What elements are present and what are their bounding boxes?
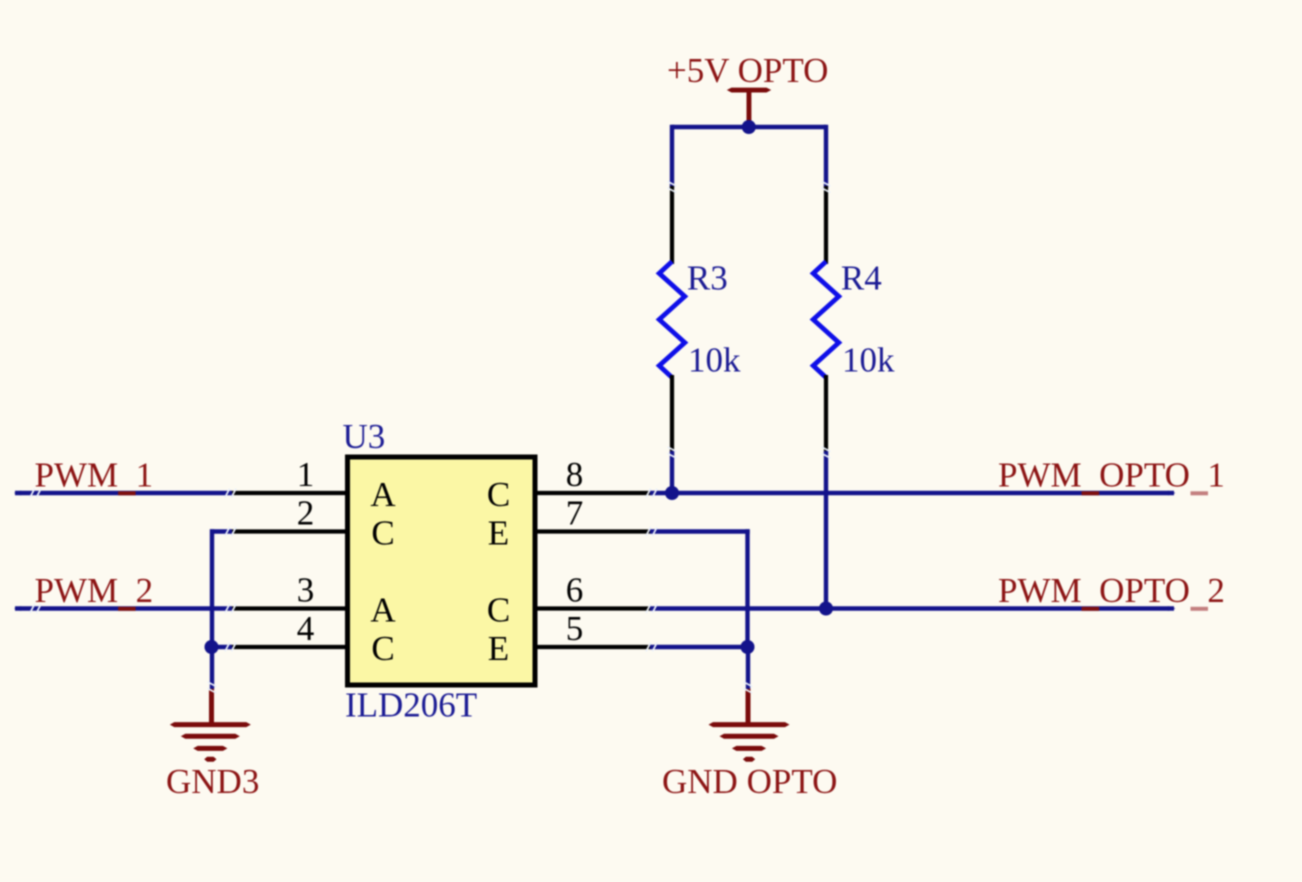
resistor R4 body [813, 262, 839, 378]
pin 6 wire [537, 606, 651, 610]
tick marker R3 top joint [668, 182, 676, 192]
pin 7 wire [537, 529, 651, 533]
wire pin2/pin4 to GND3 [210, 529, 232, 689]
junction R4 / pin6 [819, 602, 833, 616]
svg-text:A: A [370, 475, 396, 514]
PWM_2 label underscore [118, 607, 136, 611]
svg-text:A: A [370, 591, 396, 630]
PWM_OPTO_1 underscore on wire [1082, 491, 1100, 495]
svg-text:+5V OPTO: +5V OPTO [667, 51, 828, 90]
svg-text:R3: R3 [687, 259, 728, 298]
svg-text:R4: R4 [841, 259, 882, 298]
pin 5 wire [537, 645, 651, 649]
pin 8 wire [537, 491, 651, 495]
tick marker R3 bottom joint [668, 447, 676, 457]
wire net PWM_2 [15, 606, 232, 610]
svg-text:3: 3 [297, 571, 315, 610]
svg-text:PWM_OPTO_1: PWM_OPTO_1 [998, 456, 1225, 495]
tick marker pin8 wire joint [646, 489, 656, 497]
junction R3 / pin8 [665, 486, 679, 500]
resistor R3 pin top [670, 186, 674, 264]
wire end taper PWM_OPTO_1 [1168, 491, 1176, 496]
svg-text:PWM_2: PWM_2 [35, 571, 154, 610]
svg-text:5: 5 [566, 609, 584, 648]
svg-text:E: E [488, 514, 509, 553]
svg-text:8: 8 [566, 455, 584, 494]
tick marker pin7 wire joint [646, 528, 656, 536]
PWM_OPTO_2 underscore on wire [1082, 607, 1100, 611]
svg-text:C: C [371, 514, 394, 553]
pin 1 wire [231, 491, 346, 495]
tick marker pin5 wire joint [646, 643, 656, 651]
svg-text:E: E [488, 629, 509, 668]
junction pin4 / GND3 [205, 640, 219, 654]
svg-text:C: C [371, 629, 394, 668]
wire net PWM_OPTO_1 [650, 491, 1174, 495]
ground GND_OPTO symbol [709, 689, 790, 762]
junction pin5 / GND_OPTO [741, 640, 755, 654]
tick marker R4 bottom joint [822, 447, 830, 457]
wire end taper PWM_2 [14, 606, 21, 611]
pin 4 wire [230, 645, 346, 649]
svg-text:1: 1 [297, 455, 315, 494]
tick marker pin6 wire joint [646, 605, 656, 613]
ground GND3 symbol [170, 689, 251, 762]
pin 2 wire [230, 529, 346, 533]
svg-text:C: C [487, 591, 510, 630]
junction +5V node [742, 120, 756, 134]
power +5V_OPTO stem [747, 90, 752, 121]
tick marker pin2 wire joint [225, 528, 235, 536]
svg-text:U3: U3 [343, 417, 386, 456]
wire net PWM_1 [15, 491, 232, 495]
tick marker pin4 wire joint [225, 643, 235, 651]
optocoupler U3 body [348, 457, 536, 685]
svg-text:7: 7 [566, 494, 584, 533]
tick marker PWM_1 end [30, 489, 40, 497]
svg-text:PWM_OPTO_2: PWM_OPTO_2 [998, 571, 1225, 610]
resistor R4 pin bottom [824, 375, 828, 455]
resistor R3 pin bottom [670, 375, 674, 455]
wire net PWM_OPTO_2 [650, 606, 1174, 610]
tick marker pin1 wire joint [225, 489, 235, 497]
wire end taper PWM_OPTO_2 [1168, 606, 1176, 611]
svg-text:GND3: GND3 [166, 762, 259, 801]
PWM_OPTO_2 underscore pale [1191, 607, 1209, 611]
svg-text:6: 6 [566, 571, 584, 610]
svg-text:10k: 10k [842, 341, 895, 380]
resistor R4 pin top [824, 186, 828, 264]
power +5V_OPTO bar symbol [727, 88, 771, 93]
PWM_1 label underscore [118, 491, 136, 495]
tick marker GND3 joint [208, 682, 216, 692]
wire pin7/pin5 to GND_OPTO [650, 529, 750, 689]
pin 3 wire [231, 606, 346, 610]
svg-text:PWM_1: PWM_1 [35, 456, 154, 495]
tick marker PWM_2 end [30, 605, 40, 613]
PWM_OPTO_1 underscore pale [1191, 491, 1209, 495]
svg-text:4: 4 [297, 609, 315, 648]
tick marker pin3 wire joint [225, 605, 235, 613]
svg-text:10k: 10k [688, 341, 741, 380]
svg-text:2: 2 [297, 494, 315, 533]
wire R3 bottom to node PWM_OPTO_1 [670, 451, 674, 495]
svg-text:GND OPTO: GND OPTO [662, 762, 837, 801]
tick marker R4 top joint [822, 182, 830, 192]
svg-text:C: C [487, 475, 510, 514]
wire end taper PWM_1 [14, 491, 21, 496]
svg-text:ILD206T: ILD206T [345, 686, 477, 725]
tick marker GND_OPTO joint [744, 682, 752, 692]
wire R4 bottom to node PWM_OPTO_2 [824, 451, 828, 611]
resistor R3 body [659, 262, 685, 378]
wire top rail +5V to R3/R4 [672, 125, 826, 188]
